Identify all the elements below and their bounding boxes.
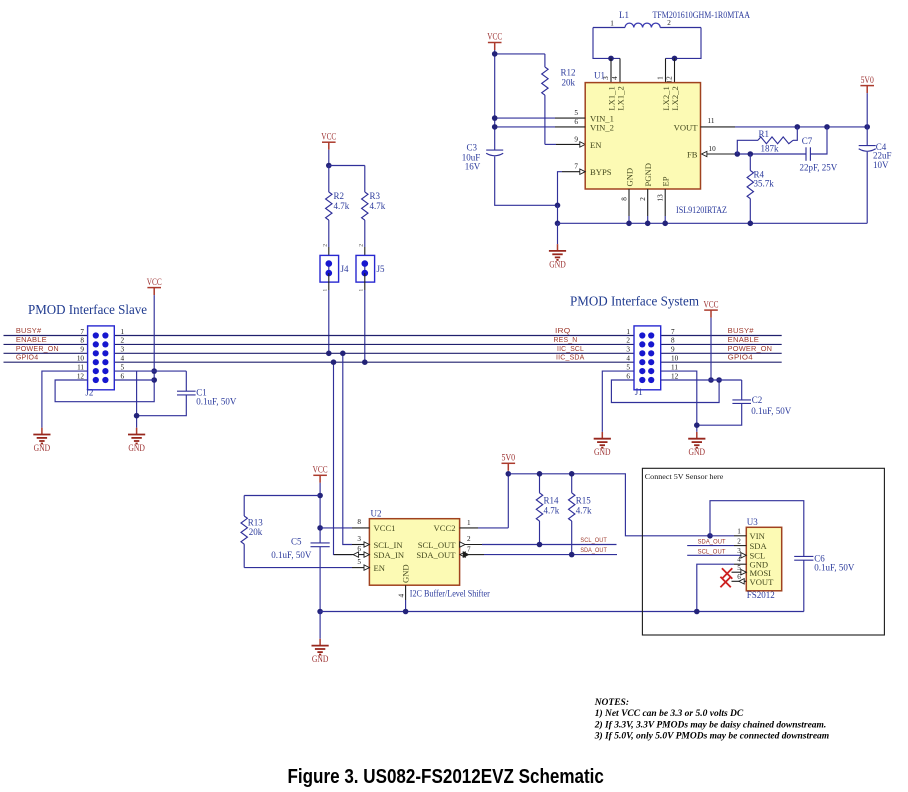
svg-text:1: 1 [737, 527, 741, 535]
pin 1 VIN stub [710, 535, 734, 537]
svg-text:PMOD Interface Slave: PMOD Interface Slave [28, 302, 147, 317]
node VOUT/C7 junction [824, 124, 830, 130]
svg-text:GND: GND [549, 259, 566, 269]
wire J2 pin 6 stub [114, 379, 154, 381]
svg-text:0.1uF, 50V: 0.1uF, 50V [814, 562, 855, 572]
wire J2 pin 11 to ground [42, 371, 88, 428]
pin 6 SDA_IN stub [334, 554, 364, 556]
svg-text:1: 1 [657, 76, 665, 80]
ground regulator [557, 223, 559, 244]
pin 3 stub LX1_1 [610, 58, 612, 82]
svg-text:BUSY#: BUSY# [728, 326, 755, 335]
wire regulator ground bus [558, 222, 868, 224]
node LX1 junction [608, 56, 614, 62]
svg-text:SCL_OUT: SCL_OUT [418, 540, 456, 550]
wire J1 pin 11 to ground [661, 371, 697, 432]
svg-text:16V: 16V [465, 162, 481, 172]
capacitor C1 [137, 371, 237, 416]
svg-text:2: 2 [467, 535, 471, 543]
svg-text:I2C Buffer/Level Shifter: I2C Buffer/Level Shifter [410, 589, 490, 599]
wire C3 bottom to BYPS junction [495, 157, 558, 206]
svg-text:35.7k: 35.7k [754, 178, 775, 188]
svg-text:FB: FB [687, 150, 698, 160]
svg-text:13: 13 [657, 194, 665, 202]
pin 1 VCC2 wire [460, 527, 478, 529]
pin 5 MOSI stub no-connect [732, 571, 741, 573]
svg-text:5: 5 [574, 109, 578, 117]
wire bottom ground bus [320, 611, 804, 613]
svg-text:3: 3 [121, 346, 125, 354]
svg-text:1) Net VCC can be 3.3 or 5.0 v: 1) Net VCC can be 3.3 or 5.0 volts DC [595, 708, 744, 719]
node R14/SCL_OUT junction [537, 542, 543, 548]
node VOUT/5V0 junction [864, 124, 870, 130]
power symbol VCC (top left) [487, 32, 502, 50]
svg-text:0.1uF, 50V: 0.1uF, 50V [271, 550, 312, 560]
svg-text:IRQ: IRQ [555, 326, 571, 335]
svg-text:VCC: VCC [147, 277, 162, 287]
ic U3 FS2012 sensor [746, 517, 781, 591]
wire VCC stem down to J2 pins 5/6 [153, 295, 155, 380]
svg-text:7: 7 [671, 328, 675, 336]
node J2 pin5/VCC junction [151, 368, 157, 374]
wire R13 to EN pin 5 [244, 567, 352, 569]
power symbol 5V0 U2 [502, 453, 516, 471]
svg-text:BUSY#: BUSY# [16, 326, 42, 335]
power symbol VCC mid [321, 131, 336, 149]
svg-text:SCL_OUT: SCL_OUT [698, 548, 726, 555]
box Connect 5V Sensor here [642, 468, 884, 635]
svg-text:SCL_OUT: SCL_OUT [580, 537, 607, 544]
wire VIN loop over U3 to C6 [710, 501, 804, 557]
svg-text:8: 8 [620, 197, 628, 201]
pin 3 SCL_IN stub [352, 544, 364, 546]
svg-text:8: 8 [671, 337, 675, 345]
node FB/R1 junction [735, 151, 741, 157]
svg-text:2) If 3.3V, 3.3V PMODs may be: 2) If 3.3V, 3.3V PMODs may be daisy chai… [594, 719, 827, 730]
svg-text:2: 2 [626, 337, 630, 345]
svg-text:GPIO4: GPIO4 [728, 353, 753, 362]
wire J2 pin5 branch down to ground [136, 371, 138, 428]
wire BYPS junction down to ground bus [557, 205, 559, 223]
capacitor C2 [697, 380, 792, 425]
node 5V0 rail junction [506, 471, 512, 477]
wire J2 pin 5 to C1 [114, 370, 186, 372]
wire VCC to R12 top [495, 53, 545, 55]
node R15 top junction [569, 471, 575, 477]
wire J1 pin 12 to C2 [661, 379, 742, 381]
label U2 function [410, 589, 490, 599]
capacitor C3 [462, 143, 503, 172]
pin numbers J2 right 1-6 [121, 328, 125, 381]
node VOUT/R1 junction [795, 124, 801, 130]
svg-text:1: 1 [359, 289, 365, 292]
svg-text:R15: R15 [576, 496, 592, 506]
svg-text:R12: R12 [561, 68, 576, 78]
svg-text:VCC: VCC [704, 299, 719, 309]
node J1 pin12 loop junction [716, 377, 722, 383]
wire L1 right loop to LX2 pins [666, 28, 702, 59]
svg-text:2: 2 [667, 19, 671, 27]
pin numbers J1 left 1-6 [626, 328, 630, 381]
node VIN_2 junction [492, 124, 498, 130]
svg-text:1: 1 [121, 328, 125, 336]
svg-text:C7: C7 [802, 136, 813, 146]
wire J2 pin 12 loop to VCC [55, 380, 154, 402]
node sensor ground junction [694, 609, 700, 615]
ground U2 section [319, 612, 321, 639]
svg-text:5V0: 5V0 [502, 453, 516, 463]
wire J4 to IIC_SCL bus [328, 290, 330, 353]
svg-text:12: 12 [77, 372, 85, 380]
wire junction to R3 branch [329, 165, 365, 167]
wire IIC_SCL tap down to U2 SCL_IN [343, 353, 352, 544]
svg-text:ENABLE: ENABLE [728, 335, 759, 344]
svg-text:2: 2 [737, 537, 741, 545]
svg-text:RES_N: RES_N [554, 335, 578, 344]
pin numbers J1 right 7-12 [671, 328, 679, 381]
svg-text:7: 7 [574, 163, 578, 171]
svg-text:PGND: PGND [643, 163, 653, 186]
wire VCC2 up to 5V0 [507, 474, 509, 528]
connector J2 PMOD slave header [85, 326, 114, 398]
svg-text:4.7k: 4.7k [334, 201, 350, 211]
svg-text:22pF, 25V: 22pF, 25V [800, 162, 838, 172]
svg-text:20k: 20k [562, 77, 576, 87]
pin 5 EN stub [352, 567, 364, 569]
ground J1 C2 [688, 432, 705, 457]
svg-text:6: 6 [121, 372, 125, 380]
svg-text:SDA_IN: SDA_IN [374, 550, 405, 560]
svg-text:7: 7 [80, 328, 84, 336]
node VCC/R13 junction [317, 493, 323, 499]
svg-text:5: 5 [626, 363, 630, 371]
wire bus BUSY#/IRQ line [4, 335, 88, 337]
svg-text:1: 1 [610, 19, 614, 27]
pin 1 stub LX2_1 [665, 58, 667, 82]
pin 3 SCL stub [687, 554, 741, 556]
svg-text:3: 3 [737, 547, 741, 555]
node VIN_1 junction [492, 115, 498, 121]
svg-text:U1: U1 [594, 70, 605, 80]
svg-text:6: 6 [626, 372, 630, 380]
resistor R4 [747, 154, 774, 223]
svg-text:J2: J2 [85, 387, 93, 397]
power symbol VCC U2 [313, 465, 328, 483]
svg-text:GPIO4: GPIO4 [16, 353, 38, 362]
resistor R14 [536, 474, 559, 545]
svg-text:ISL9120IRTAZ: ISL9120IRTAZ [676, 205, 727, 215]
ground regulator [549, 244, 566, 269]
svg-text:U2: U2 [371, 508, 382, 518]
svg-text:R3: R3 [370, 191, 381, 201]
wire J1 pin 5 to ground [602, 371, 634, 432]
pin 2 SCL_OUT wire [460, 542, 465, 547]
svg-text:11: 11 [671, 363, 678, 371]
node R14 top junction [537, 471, 543, 477]
pin 4 stub LX1_2 [619, 58, 621, 82]
resistor R1 [737, 127, 797, 154]
capacitor C5 [271, 537, 329, 560]
svg-text:4.7k: 4.7k [544, 506, 560, 516]
svg-text:4: 4 [737, 556, 741, 564]
svg-text:10: 10 [709, 145, 717, 153]
svg-text:C2: C2 [752, 395, 763, 405]
node FB/R4 junction [748, 151, 754, 157]
svg-text:10: 10 [77, 355, 85, 363]
svg-text:TFM201610GHM-1R0MTAA: TFM201610GHM-1R0MTAA [653, 10, 751, 20]
svg-text:5: 5 [121, 363, 125, 371]
node VCC/pin8 junction [317, 525, 323, 531]
wire C4 bottom to ground bus [866, 152, 868, 223]
wire 5V0 rail to sensor box [508, 474, 710, 536]
svg-text:4.7k: 4.7k [576, 506, 592, 516]
svg-text:C3: C3 [466, 143, 477, 153]
jumper J5 [356, 244, 385, 292]
svg-text:LX2_2: LX2_2 [670, 86, 680, 110]
node R4/ground bus junction [748, 221, 754, 227]
pin 8 GND stub [628, 189, 630, 216]
wire R12 to EN pin 9 [545, 143, 556, 145]
svg-text:6: 6 [574, 118, 578, 126]
node R15/SDA_OUT junction [569, 552, 575, 558]
node LX2 junction [672, 56, 678, 62]
wire bus ENABLE/RES_N line [4, 343, 88, 345]
node PGND pin junction [645, 221, 651, 227]
svg-text:GND: GND [624, 168, 634, 187]
svg-text:EN: EN [374, 563, 386, 573]
svg-text:SDA_OUT: SDA_OUT [416, 550, 456, 560]
svg-text:Figure 3. US082-FS2012EVZ Sche: Figure 3. US082-FS2012EVZ Schematic [288, 765, 604, 788]
svg-text:R14: R14 [544, 496, 560, 506]
node J4/SCL junction [326, 351, 332, 357]
resistor R3 [362, 166, 386, 248]
svg-text:POWER_ON: POWER_ON [728, 344, 773, 353]
ground J1 pin5 [594, 432, 611, 457]
svg-text:4: 4 [611, 76, 619, 80]
svg-text:GND: GND [312, 654, 329, 664]
svg-text:EN: EN [590, 140, 602, 150]
pin 2 PGND stub [647, 189, 649, 216]
svg-text:Connect 5V Sensor here: Connect 5V Sensor here [645, 472, 724, 481]
svg-text:5: 5 [357, 558, 361, 566]
ground J2 C1 [128, 428, 145, 453]
svg-text:SDA_OUT: SDA_OUT [698, 539, 726, 546]
capacitor C6 [794, 553, 855, 572]
svg-text:EP: EP [660, 176, 670, 186]
wire VCC stem to R2/R3 junction [328, 150, 330, 166]
svg-text:4: 4 [398, 594, 406, 598]
svg-text:1: 1 [467, 519, 471, 527]
svg-text:IIC_SCL: IIC_SCL [557, 344, 584, 353]
svg-text:3: 3 [626, 346, 630, 354]
pin 11 VOUT wire [701, 126, 736, 128]
svg-text:20k: 20k [249, 527, 263, 537]
pin 7 BYPS wire [558, 172, 563, 206]
wire C7 to VOUT [810, 127, 827, 154]
notes text block [594, 698, 830, 742]
node J2 pin6/VCC junction [151, 377, 157, 383]
svg-text:4: 4 [121, 355, 125, 363]
svg-text:10V: 10V [873, 160, 889, 170]
pin 5 VIN_1 wire [495, 117, 555, 119]
resistor R13 [241, 496, 320, 568]
ground J2 pin11 [33, 428, 50, 453]
svg-text:R13: R13 [248, 518, 264, 528]
node C2/ground junction [694, 422, 700, 428]
svg-text:VCC: VCC [487, 32, 502, 42]
svg-text:3) If 5.0V, only 5.0V PMODs ma: 3) If 5.0V, only 5.0V PMODs may be conne… [594, 731, 830, 742]
jumper J4 [320, 244, 349, 292]
wire bus GPIO4/IIC_SDA line [4, 361, 88, 363]
svg-text:J5: J5 [377, 264, 386, 274]
wire C5 bottom to ground bus [319, 547, 321, 612]
connector J1 PMOD system header [634, 326, 661, 397]
svg-text:2: 2 [359, 244, 365, 247]
ic U2 I2C buffer [369, 508, 459, 585]
svg-text:2: 2 [121, 337, 125, 345]
wire L1 left loop to LX1 pins [593, 28, 620, 59]
svg-text:4: 4 [626, 355, 630, 363]
power symbol VCC J1 [704, 299, 719, 317]
svg-text:4.7k: 4.7k [370, 201, 386, 211]
wire 5V0 to VOUT rail [866, 93, 868, 146]
pin 7 SDA_OUT wire [460, 552, 465, 557]
node VIN wire junction [707, 533, 713, 539]
svg-text:3: 3 [357, 535, 361, 543]
svg-text:0.1uF, 50V: 0.1uF, 50V [751, 406, 792, 416]
svg-text:R2: R2 [334, 191, 345, 201]
svg-text:PMOD Interface System: PMOD Interface System [570, 294, 699, 309]
node GND pin junction [626, 221, 632, 227]
svg-text:187k: 187k [761, 143, 780, 153]
svg-text:9: 9 [671, 346, 675, 354]
svg-text:GND: GND [689, 447, 706, 457]
pin 8 VCC1 wire [320, 527, 352, 529]
svg-text:GND: GND [128, 443, 145, 453]
svg-text:NOTES:: NOTES: [594, 698, 629, 708]
node EP pin junction [662, 221, 668, 227]
pin 4 GND wire [697, 564, 734, 611]
svg-text:GND: GND [401, 564, 411, 583]
resistor R2 [326, 166, 350, 248]
svg-text:6: 6 [357, 545, 361, 553]
node ground bus left [317, 609, 323, 615]
node ground bus left [555, 221, 561, 227]
svg-text:8: 8 [357, 518, 361, 526]
svg-text:7: 7 [467, 546, 471, 554]
svg-text:IIC_SDA: IIC_SDA [556, 353, 585, 362]
node C1/ground junction [134, 413, 140, 419]
svg-text:VCC: VCC [321, 131, 336, 141]
svg-text:C5: C5 [291, 537, 302, 547]
svg-text:U3: U3 [747, 517, 758, 527]
pin 10 FB wire [702, 151, 707, 156]
node J1 pin12/VCC junction [708, 377, 714, 383]
svg-text:2: 2 [323, 244, 329, 247]
pin 13 EP stub [664, 189, 666, 216]
svg-text:11: 11 [708, 117, 715, 125]
capacitor C7 [800, 136, 838, 173]
svg-text:5V0: 5V0 [861, 75, 875, 85]
svg-text:SDA_OUT: SDA_OUT [580, 547, 607, 554]
power symbol VCC J2 [147, 277, 162, 295]
node VCC R2/R3 junction [326, 163, 332, 169]
regulator U1 ISL9120IRTAZ [585, 70, 700, 189]
wire J1 pin 6 loop to VCC [611, 380, 719, 403]
pin numbers J2 left 7-12 [77, 328, 85, 381]
power symbol 5V0 (top right) [860, 75, 874, 93]
ground U2 section [312, 639, 329, 664]
svg-text:VCC2: VCC2 [434, 523, 456, 533]
svg-text:FS2012: FS2012 [747, 590, 775, 600]
wire bus POWER_ON/IIC_SCL line [4, 352, 88, 354]
svg-text:VCC1: VCC1 [374, 523, 396, 533]
pin 2 SDA stub [687, 545, 734, 547]
svg-text:9: 9 [574, 136, 578, 144]
svg-text:SCL_IN: SCL_IN [374, 540, 404, 550]
svg-text:VIN: VIN [750, 531, 766, 541]
wire C6 bottom to ground bus corner [803, 560, 805, 611]
svg-text:J4: J4 [341, 264, 350, 274]
wire VCC stem down to J1 pin 12 [710, 318, 712, 380]
wire VCC vertical to C3 [494, 50, 496, 150]
svg-text:SDA: SDA [750, 541, 768, 551]
wire J5 to IIC_SDA bus [364, 290, 366, 362]
svg-text:5: 5 [737, 564, 741, 572]
svg-text:ENABLE: ENABLE [16, 335, 47, 344]
inductor L1 [593, 10, 701, 28]
svg-text:VIN_2: VIN_2 [590, 122, 614, 132]
pin 12 stub LX2_2 [674, 58, 676, 82]
node J5/SDA junction [362, 359, 368, 365]
svg-text:2: 2 [639, 197, 647, 201]
svg-text:6: 6 [737, 573, 741, 581]
resistor R15 [569, 474, 592, 555]
svg-text:10: 10 [671, 355, 679, 363]
node SCL tap junction [340, 351, 346, 357]
svg-text:VOUT: VOUT [674, 122, 699, 132]
svg-text:11: 11 [77, 363, 84, 371]
node BYPS junction [555, 203, 561, 209]
wire IIC_SDA tap down to U2 SDA_IN [334, 362, 353, 554]
pin 6 VOUT stub no-connect [732, 580, 747, 582]
svg-text:GND: GND [34, 443, 51, 453]
pin 9 EN stub [556, 143, 580, 145]
svg-text:LX1_2: LX1_2 [615, 86, 625, 110]
pin 6 VIN_2 wire [495, 126, 555, 128]
svg-text:1: 1 [323, 289, 329, 292]
svg-text:12: 12 [671, 372, 679, 380]
svg-text:1: 1 [626, 328, 630, 336]
resistor R12 [542, 54, 576, 144]
node SDA tap junction [331, 359, 337, 365]
svg-text:R1: R1 [759, 129, 770, 139]
capacitor C4 [859, 142, 892, 170]
svg-text:J1: J1 [635, 387, 643, 397]
node U2 GND/bus junction [403, 609, 409, 615]
svg-text:VOUT: VOUT [750, 577, 775, 587]
wire VCC down through C5 [319, 483, 321, 543]
svg-text:BYPS: BYPS [590, 167, 612, 177]
node VCC/R12 junction [492, 51, 498, 57]
svg-text:0.1uF, 50V: 0.1uF, 50V [196, 396, 237, 406]
svg-text:L1: L1 [619, 10, 629, 20]
svg-text:VCC: VCC [313, 465, 328, 475]
pin 4 GND stub [405, 585, 407, 600]
svg-text:POWER_ON: POWER_ON [16, 344, 59, 353]
svg-text:8: 8 [80, 337, 84, 345]
svg-text:GND: GND [594, 447, 611, 457]
